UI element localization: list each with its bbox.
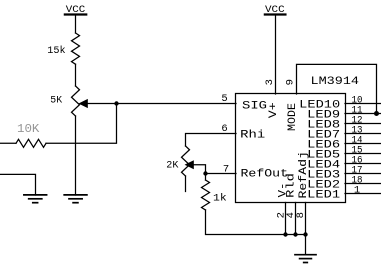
LED output pins: [345, 104, 381, 194]
svg-text:Rhi: Rhi: [240, 129, 265, 141]
potentiometer 5K: [50, 86, 79, 116]
wire VCC1 to R 15k: [75, 16, 77, 33]
svg-text:1: 1: [354, 185, 360, 197]
ground 3: [295, 255, 316, 263]
svg-text:V+: V+: [268, 102, 280, 118]
wire pin 17 LED3: [345, 173, 381, 175]
resistor 1k: [202, 180, 227, 210]
wiper arrow of 2K: [186, 161, 193, 168]
wire 15k to pot 5K: [75, 64, 77, 86]
svg-text:LED1: LED1: [307, 190, 340, 202]
wire pin 14 LED6: [345, 143, 381, 145]
VCC rail left: [65, 4, 86, 16]
junction MODE to pin 11: [374, 111, 379, 116]
wire 10K to SIG junction: [46, 104, 117, 144]
wire pin 8 RefAdj to ground: [305, 203, 307, 255]
wire 1k top to junction: [205, 174, 207, 181]
ground 2: [64, 195, 87, 203]
2K bottom open lead: [185, 176, 187, 192]
svg-text:SIG: SIG: [242, 100, 267, 112]
wire 2K wiper to RefOut node: [193, 165, 206, 174]
wire VCC2 to pin 3 V+: [275, 16, 277, 94]
wire left edge to 10K: [0, 142, 16, 144]
svg-text:6: 6: [221, 123, 227, 135]
svg-text:RefOut: RefOut: [241, 169, 289, 181]
wiper arrow of 5K: [80, 100, 87, 107]
wire pin 2 V-: [285, 203, 287, 235]
junction pin 4: [293, 232, 297, 236]
wire 1k bottom to IC ground bus: [206, 210, 306, 235]
resistor 15k: [47, 33, 79, 64]
wire pin 15 LED5: [345, 153, 381, 155]
svg-text:LM3914: LM3914: [311, 76, 360, 88]
svg-text:MODE: MODE: [287, 103, 299, 131]
svg-text:1k: 1k: [213, 193, 227, 205]
junction node RefOut: [203, 171, 207, 175]
junction node SIG: [114, 101, 118, 105]
wire pin 16 LED4: [345, 163, 381, 165]
potentiometer 2K: [166, 146, 189, 176]
wire left edge to ground 1: [0, 174, 36, 195]
wire pin 7 RefOut: [206, 173, 237, 175]
wire pin 6 Rhi to 2K: [186, 134, 237, 147]
IC U1 LM3914: [236, 94, 346, 203]
wire 5K wiper to SIG node: [87, 103, 237, 105]
ground 1: [24, 195, 47, 203]
svg-text:10K: 10K: [17, 122, 40, 136]
wire pin 11 LED9: [345, 113, 381, 115]
wire MODE pin 9 loop to pin 11: [297, 64, 377, 113]
wire pin 13 LED7: [345, 133, 381, 135]
VCC rail right: [265, 4, 286, 16]
svg-text:3: 3: [264, 79, 276, 85]
svg-text:Rld: Rld: [286, 173, 298, 198]
svg-text:9: 9: [285, 79, 297, 85]
wire pin 18 LED2: [345, 183, 381, 185]
svg-text:2K: 2K: [166, 160, 179, 172]
junction pin 8: [303, 232, 307, 236]
wire pin 10 LED10: [345, 103, 381, 105]
svg-text:15k: 15k: [47, 45, 65, 57]
wire pin 1 LED1: [345, 193, 381, 195]
svg-text:7: 7: [223, 163, 229, 175]
wire pin 12 LED8: [345, 123, 381, 125]
wire 5K bottom to ground: [75, 116, 77, 195]
svg-text:5K: 5K: [50, 95, 62, 107]
wire pin 4 Rld: [295, 203, 297, 235]
resistor 10K: [16, 122, 46, 147]
svg-text:5: 5: [221, 93, 227, 105]
junction pin 2: [283, 232, 287, 236]
